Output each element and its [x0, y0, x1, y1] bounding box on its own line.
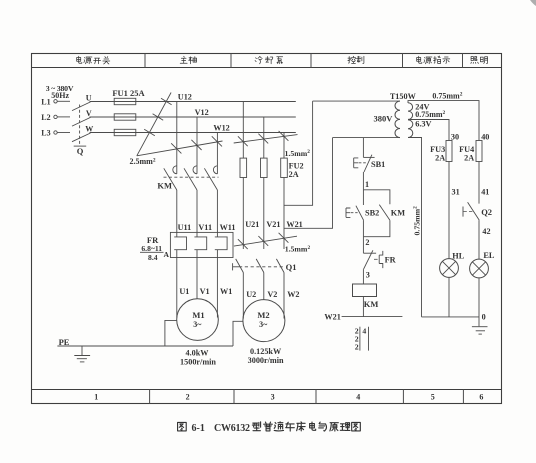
svg-text:M2: M2 — [257, 310, 269, 320]
fuse FU1 element at y=132.5 — [114, 129, 136, 135]
cable marker 2.5mm2 — [130, 93, 223, 167]
svg-text:4: 4 — [356, 393, 360, 402]
svg-text:6-1: 6-1 — [192, 423, 205, 434]
wire 24V to FU4 — [408, 101, 479, 141]
svg-text:W1: W1 — [220, 287, 232, 296]
fuse FU3 — [446, 141, 452, 162]
wire coil to W21 line — [362, 297, 364, 317]
wire L3 to switch Q — [57, 132, 70, 134]
motor M1 — [177, 299, 219, 341]
wire FR to KM coil — [362, 269, 364, 284]
svg-text:42: 42 — [482, 227, 490, 236]
svg-text:KM: KM — [364, 299, 379, 309]
motor M2 — [243, 300, 285, 342]
svg-text:380V: 380V — [374, 114, 394, 124]
wire HL to bus — [448, 277, 450, 317]
switch Q blade L1 — [72, 102, 91, 111]
svg-text:PE: PE — [59, 337, 70, 347]
svg-text:6.3V: 6.3V — [415, 119, 431, 128]
wire W21 (control return) — [342, 316, 403, 318]
svg-text:HL: HL — [452, 251, 464, 260]
svg-text:2.5mm2: 2.5mm2 — [130, 157, 156, 166]
svg-text:FU1 25A: FU1 25A — [112, 88, 145, 98]
svg-text:50Hz: 50Hz — [51, 91, 69, 100]
caption — [178, 422, 361, 434]
header label: control column — [348, 56, 364, 63]
svg-text:2: 2 — [355, 342, 359, 351]
svg-text:1: 1 — [94, 393, 98, 402]
M1 frame to PE — [165, 320, 177, 346]
svg-text:2A: 2A — [289, 170, 299, 179]
wire transformer primary bottom / control feed bus — [333, 137, 401, 139]
bottom column dividers — [149, 390, 151, 404]
svg-text:V21: V21 — [266, 220, 280, 229]
thermal relay FR contact (NC) — [363, 250, 382, 269]
svg-text:U: U — [86, 93, 92, 102]
contactor coil KM — [353, 284, 377, 297]
svg-text:Q2: Q2 — [481, 207, 492, 217]
contactor KM main contacts — [164, 166, 219, 190]
svg-text:U2: U2 — [246, 290, 256, 299]
svg-text:EL: EL — [483, 251, 495, 260]
wires Q1 to M2 — [242, 273, 244, 319]
wire KM aux bottom joining — [363, 220, 390, 236]
switch Q blade L2 — [72, 117, 91, 126]
svg-text:6.8~11: 6.8~11 — [141, 244, 162, 253]
wire Q2 to EL — [478, 220, 480, 259]
M2 frame to PE — [233, 321, 243, 346]
conductor count marker 2/2/2 | 4 — [355, 326, 369, 351]
fuse FU2 element at x=243.3 — [240, 158, 247, 177]
header row line — [32, 67, 502, 69]
switch Q1 blade at x=263.8 — [256, 259, 264, 273]
lamp EL — [470, 259, 489, 278]
svg-text:Q1: Q1 — [286, 262, 297, 272]
junction W21 to transformer primary top riser — [284, 101, 313, 205]
wire EL to ground — [478, 278, 480, 326]
switch Q1 handle — [232, 263, 234, 270]
svg-text:41: 41 — [481, 188, 489, 197]
header label: coolant pump column — [255, 56, 283, 63]
fuse FU1 element at y=117.0 — [114, 114, 136, 120]
bottom row line — [32, 389, 502, 391]
svg-text:V1: V1 — [200, 287, 210, 296]
fuse FU2 element at x=263.8 — [261, 158, 268, 177]
switch Q2 handle — [462, 207, 464, 217]
svg-text:SB1: SB1 — [371, 160, 385, 169]
svg-text:V12: V12 — [195, 108, 209, 117]
wire W bus — [90, 132, 296, 134]
wire L1 to switch Q — [57, 100, 70, 102]
wire U12 drop — [176, 102, 178, 174]
svg-text:KM: KM — [157, 181, 172, 191]
header label: lighting column — [471, 57, 488, 64]
wire SB2 bottom joining — [362, 220, 364, 236]
svg-text:3000r/min: 3000r/min — [248, 356, 284, 365]
wire W12 drop — [216, 133, 218, 174]
taps U/V/W to FU2 — [242, 102, 244, 159]
svg-text:1.5mm2: 1.5mm2 — [285, 149, 311, 158]
transformer secondary 6.3V winding — [408, 120, 413, 138]
svg-text:0.75mm2: 0.75mm2 — [412, 206, 421, 236]
wire SB1 feed drop — [362, 138, 364, 158]
header column dividers — [144, 54, 146, 68]
svg-text:L2: L2 — [41, 113, 50, 122]
svg-text:3: 3 — [366, 270, 370, 279]
svg-text:6: 6 — [479, 393, 483, 402]
wire transformer primary top — [313, 100, 400, 102]
svg-text:0.75mm2: 0.75mm2 — [415, 110, 445, 119]
switch Q1 blade at x=243.3 — [236, 259, 244, 273]
FR heater element at x=197.0 — [194, 232, 206, 257]
svg-text:FR: FR — [385, 256, 397, 265]
svg-text:2: 2 — [365, 238, 369, 247]
svg-text:3~: 3~ — [259, 320, 268, 329]
FR heater element at x=176.8 — [174, 232, 186, 257]
svg-text:W12: W12 — [213, 124, 229, 133]
wire SB1 to node 1 — [362, 172, 364, 190]
header label: power indicator column — [417, 56, 450, 64]
svg-text:CW6132: CW6132 — [214, 423, 250, 434]
wire U bus — [90, 101, 296, 103]
svg-text:5: 5 — [431, 393, 435, 402]
ground (lighting) — [472, 326, 488, 328]
svg-text:KM: KM — [391, 208, 405, 217]
transformer T 150W primary winding — [395, 101, 400, 137]
svg-text:2A: 2A — [464, 153, 474, 162]
FR heater element at x=217.4 — [215, 232, 227, 257]
page smudge — [530, 0, 536, 6]
wire FU3 to HL — [448, 162, 450, 259]
svg-text:T150W: T150W — [390, 92, 417, 101]
svg-text:V11: V11 — [198, 223, 212, 232]
fuse FU1 element at y=101.5 — [114, 98, 136, 104]
header label: power switch column — [77, 56, 110, 64]
switch Q blade L3 — [72, 133, 91, 142]
svg-text:0.125kW: 0.125kW — [250, 347, 282, 356]
wires FU2 down (U21,V21,W21) — [242, 178, 244, 250]
svg-text:31: 31 — [452, 188, 460, 197]
ground on PE — [81, 346, 83, 356]
svg-text:0: 0 — [482, 313, 486, 322]
svg-text:U1: U1 — [179, 287, 189, 296]
wires KM to FR — [176, 190, 178, 232]
fuse FU4 — [476, 141, 482, 162]
wire V12 drop — [196, 117, 198, 174]
svg-text:W21: W21 — [324, 313, 340, 322]
drawing border frame — [32, 54, 502, 404]
svg-text:SB2: SB2 — [365, 209, 379, 218]
lamp HL — [440, 259, 459, 278]
svg-text:U11: U11 — [178, 223, 192, 232]
lamp return bus — [422, 316, 480, 318]
svg-text:8.4: 8.4 — [148, 253, 158, 262]
wire V bus — [90, 116, 296, 118]
switch Q1 blade at x=284.0 — [276, 259, 284, 273]
cable marker 1.5mm2 (upper) — [234, 131, 311, 158]
switch Q linkage (dashed) — [79, 105, 81, 147]
junction W21 to control feed riser — [284, 138, 333, 229]
branch split to KM aux — [363, 190, 390, 204]
svg-text:W2: W2 — [287, 290, 299, 299]
wires FR to M1 — [176, 258, 178, 318]
svg-text:3: 3 — [271, 393, 275, 402]
svg-text:4: 4 — [362, 326, 366, 335]
svg-text:L1: L1 — [41, 98, 50, 107]
switch Q handle bar — [74, 145, 87, 147]
wire L2 to switch Q — [57, 116, 70, 118]
wire secondary common return — [408, 138, 422, 317]
header label: spindle column — [180, 56, 196, 64]
svg-text:U12: U12 — [178, 93, 192, 102]
cable marker 1.5mm2 (lower) — [234, 233, 311, 254]
thermal relay FR heater box — [170, 232, 233, 257]
svg-text:4.0kW: 4.0kW — [186, 349, 210, 358]
transformer secondary 24V winding — [408, 103, 413, 120]
svg-text:L3: L3 — [41, 129, 50, 138]
switch Q2 blade — [468, 202, 480, 220]
svg-text:M1: M1 — [192, 310, 204, 320]
pushbutton SB2 (NO start) — [346, 206, 364, 221]
svg-text:2A: 2A — [435, 153, 445, 162]
svg-text:1: 1 — [365, 180, 369, 189]
svg-text:U21: U21 — [245, 220, 259, 229]
svg-text:W11: W11 — [220, 223, 236, 232]
pushbutton SB1 (NC stop) — [354, 155, 375, 172]
wire PE — [57, 345, 233, 347]
wire node2 to FR contact — [362, 237, 364, 254]
wire 6.3V tap to FU3 — [409, 120, 449, 141]
svg-text:W21: W21 — [286, 220, 302, 229]
wire FU4 to Q2 — [478, 162, 480, 204]
svg-text:V2: V2 — [267, 290, 277, 299]
svg-text:2: 2 — [186, 393, 190, 402]
wire node1 down to SB2 — [362, 190, 364, 205]
svg-text:0.75mm2: 0.75mm2 — [432, 92, 462, 101]
svg-text:1.5mm2: 1.5mm2 — [285, 245, 311, 254]
fuse FU2 element at x=284.0 — [281, 158, 288, 177]
svg-text:1500r/min: 1500r/min — [180, 358, 216, 367]
svg-text:Q: Q — [77, 146, 84, 156]
contactor KM aux contact — [379, 205, 390, 221]
svg-text:3~: 3~ — [193, 320, 202, 329]
switch Q1 linkage (dashed) — [239, 266, 283, 268]
svg-text:A: A — [163, 250, 169, 259]
